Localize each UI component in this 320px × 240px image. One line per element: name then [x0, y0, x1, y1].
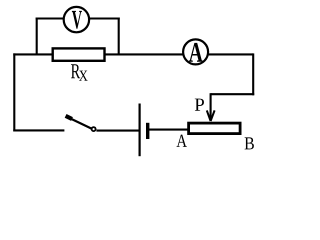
voltmeter V — [64, 7, 89, 32]
switch S — [66, 116, 96, 131]
wire: horizontal toward slider — [211, 93, 255, 95]
resistor Rx — [53, 48, 105, 60]
wire: voltmeter branch right vertical — [118, 18, 120, 56]
wire: voltmeter branch left vertical — [36, 18, 38, 56]
wire: battery to rheostat — [149, 129, 188, 131]
slider arrow P — [207, 93, 215, 121]
battery — [140, 104, 148, 157]
wire: voltmeter branch top horizontal — [36, 17, 120, 19]
label B (rheostat right end) — [245, 137, 254, 149]
label P — [195, 99, 204, 111]
wire: main middle horizontal from left node through resistor to ammeter — [13, 53, 253, 55]
wire: left main vertical — [13, 53, 15, 131]
label A (rheostat left end) — [177, 135, 187, 147]
label Rx — [71, 64, 88, 81]
wire: ammeter right vertical down — [252, 53, 254, 95]
rheostat R — [189, 123, 241, 134]
wire: bottom left horizontal to switch — [13, 129, 64, 131]
wire: switch to battery — [96, 130, 139, 132]
ammeter A — [183, 39, 208, 64]
